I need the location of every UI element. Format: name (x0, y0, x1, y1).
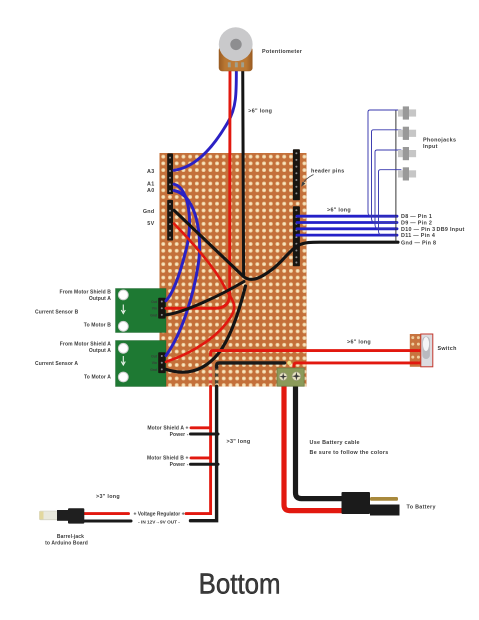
svg-text:Input: Input (423, 144, 438, 150)
battery connector (342, 492, 400, 516)
svg-text:From Motor Shield B: From Motor Shield B (60, 289, 112, 295)
svg-text:D8 — Pin 1: D8 — Pin 1 (401, 214, 432, 220)
wire thin blue phonojack 2 (372, 130, 402, 223)
wire blue D11 (297, 234, 397, 237)
phonojack 2 (398, 127, 416, 140)
svg-text:DB9 Input: DB9 Input (437, 227, 465, 233)
phonojack 3 (398, 147, 416, 160)
svg-text:A1: A1 (147, 181, 155, 187)
svg-text:Be sure to follow the colors: Be sure to follow the colors (310, 450, 389, 456)
wire black potentiometer (241, 64, 245, 276)
wire blue potentiometer to A3 (174, 64, 236, 170)
svg-text:- IN 12V→9V OUT -: - IN 12V→9V OUT - (138, 520, 180, 525)
wire black motor shield B stub (191, 463, 219, 466)
phonojack 4 (398, 167, 416, 180)
wire blue D10 (297, 227, 397, 230)
svg-text:Gnd: Gnd (150, 313, 157, 317)
current sensor A (116, 341, 167, 387)
svg-text:Output A: Output A (89, 296, 111, 302)
wire black motor shield A stub (191, 433, 219, 436)
wire red potentiometer to sensor B (166, 64, 230, 308)
svg-text:Gnd: Gnd (150, 368, 157, 372)
header strip left top (A3 A1 A0) (167, 153, 173, 194)
header strip left bottom (Gnd 5V) (167, 200, 173, 241)
svg-text:>6" long: >6" long (347, 339, 371, 345)
wire black bus riser below board (191, 386, 217, 520)
wire red barrel jack (84, 512, 129, 515)
svg-text:Gnd: Gnd (143, 209, 155, 215)
wire thin black phonojack ground bus (395, 110, 397, 242)
svg-text:Switch: Switch (438, 346, 457, 352)
solder hole (287, 361, 291, 365)
svg-text:Current Sensor A: Current Sensor A (35, 361, 78, 367)
svg-text:From Motor Shield A: From Motor Shield A (60, 342, 112, 348)
svg-text:5V: 5V (147, 221, 154, 227)
svg-text:D10 — Pin 3: D10 — Pin 3 (401, 227, 435, 233)
potentiometer (219, 27, 253, 71)
svg-text:D9 — Pin 2: D9 — Pin 2 (401, 221, 432, 227)
wire red battery (284, 383, 342, 511)
header strip right top (293, 149, 300, 200)
wire blue A1 to sensor B out (166, 184, 190, 301)
svg-text:>6" long: >6" long (327, 207, 351, 213)
svg-text:Out: Out (151, 355, 158, 359)
svg-text:Motor Shield A +: Motor Shield A + (147, 426, 188, 432)
svg-text:>3" long: >3" long (96, 494, 120, 500)
svg-text:A0: A0 (147, 188, 155, 194)
wire black current sensor A gnd (166, 286, 246, 372)
svg-text:Power -: Power - (170, 432, 189, 438)
svg-text:Bottom: Bottom (199, 568, 281, 600)
wire red regulator riser under board (209, 353, 212, 387)
wire thin blue phonojack 4 (379, 170, 402, 235)
svg-text:Output A: Output A (89, 348, 111, 354)
wire black gnd to DB9 pin8 (174, 210, 398, 279)
svg-text:Phonojacks: Phonojacks (423, 138, 456, 144)
wire thin blue phonojack 3 (375, 150, 401, 229)
terminal block (277, 368, 304, 386)
wire black barrel jack (84, 520, 131, 523)
svg-text:Current Sensor B: Current Sensor B (35, 309, 79, 315)
svg-text:Vin: Vin (152, 307, 157, 311)
wire blue D9 (297, 221, 397, 224)
switch pcb strip (410, 334, 421, 367)
svg-text:header pins: header pins (311, 169, 345, 175)
wire red switch return (294, 363, 421, 369)
svg-text:>3" long: >3" long (227, 439, 251, 445)
svg-text:Motor Shield B +: Motor Shield B + (147, 456, 189, 462)
svg-text:To Motor A: To Motor A (84, 375, 111, 381)
switch body (421, 334, 433, 367)
barrel jack (40, 508, 85, 523)
phonojack 1 (398, 106, 416, 119)
svg-text:Barrel-jack: Barrel-jack (57, 534, 84, 540)
wire red motor shield A stub (191, 426, 211, 429)
wire blue D8 (297, 215, 397, 218)
svg-text:>6" long: >6" long (248, 109, 272, 115)
svg-text:To Motor B: To Motor B (84, 322, 111, 328)
svg-text:Use Battery cable: Use Battery cable (310, 440, 360, 446)
svg-text:Power -: Power - (170, 462, 189, 468)
wire black board bus (217, 363, 285, 367)
wire thin blue phonojack 1 (368, 110, 401, 216)
wire black battery (296, 383, 347, 499)
arrow header pins (303, 175, 314, 184)
svg-text:+ Voltage Regulator +: + Voltage Regulator + (133, 511, 184, 517)
header strip right bottom (D8-D11 Gnd) (293, 206, 300, 266)
perfboard (160, 153, 307, 387)
wire red switch feed (211, 351, 421, 355)
svg-text:to Arduino Board: to Arduino Board (45, 540, 88, 546)
svg-text:D11 — Pin 4: D11 — Pin 4 (401, 233, 435, 239)
svg-text:A3: A3 (147, 169, 155, 175)
wire red 5V to sensor A (166, 224, 234, 362)
svg-text:Potentiometer: Potentiometer (262, 49, 303, 55)
svg-text:To Battery: To Battery (407, 505, 436, 511)
wire blue A0 to sensor A out (166, 191, 200, 356)
wire black bus riser under board (215, 365, 218, 388)
svg-text:Gnd — Pin 8: Gnd — Pin 8 (401, 240, 436, 246)
svg-text:Out: Out (151, 300, 158, 304)
svg-text:Vin: Vin (152, 361, 157, 365)
wire red motor shield B stub (191, 456, 211, 459)
current sensor B (116, 289, 167, 333)
wire red regulator riser below board (186, 386, 211, 513)
wire black current sensor B gnd (166, 282, 244, 315)
